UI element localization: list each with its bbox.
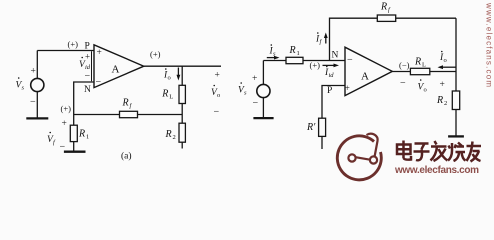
svg-text:−: − — [96, 77, 102, 88]
svg-text:id: id — [85, 64, 91, 71]
svg-text:N: N — [332, 51, 339, 61]
svg-text:−: − — [214, 107, 220, 118]
svg-text:(a): (a) — [121, 151, 132, 162]
svg-text:+: + — [31, 67, 36, 77]
svg-text:−: − — [30, 97, 36, 108]
svg-text:R: R — [380, 2, 387, 13]
svg-text:(+): (+) — [150, 49, 161, 59]
svg-text:R: R — [165, 129, 172, 140]
svg-text:R: R — [78, 129, 85, 140]
svg-text:+: + — [215, 71, 220, 81]
svg-text:R: R — [436, 95, 443, 106]
svg-text:−: − — [253, 98, 259, 109]
svg-text:(−): (−) — [399, 60, 410, 70]
svg-text:o: o — [168, 75, 171, 82]
svg-text:o: o — [444, 57, 447, 64]
svg-text:(+): (+) — [310, 60, 321, 70]
svg-text:2: 2 — [444, 100, 447, 107]
svg-text:www.elecfans.com: www.elecfans.com — [485, 2, 494, 87]
svg-text:L: L — [422, 61, 426, 68]
svg-text:+: + — [62, 119, 67, 129]
svg-text:+: + — [440, 80, 445, 90]
svg-text:−: − — [347, 55, 353, 66]
svg-text:R′: R′ — [306, 122, 316, 133]
svg-text:N: N — [84, 85, 91, 95]
svg-text:+: + — [345, 84, 350, 94]
svg-text:(+): (+) — [61, 104, 72, 114]
svg-text:P: P — [327, 86, 332, 96]
svg-text:id: id — [329, 72, 335, 79]
svg-text:(+): (+) — [68, 39, 79, 49]
svg-text:www.elecfans.com: www.elecfans.com — [394, 165, 479, 176]
svg-text:A: A — [112, 64, 120, 76]
svg-text:+: + — [85, 52, 90, 62]
svg-text:+: + — [252, 74, 257, 84]
svg-text:P: P — [85, 42, 90, 52]
svg-text:−: − — [400, 78, 406, 89]
svg-text:−: − — [60, 142, 66, 153]
svg-text:L: L — [169, 93, 173, 100]
svg-text:1: 1 — [86, 134, 89, 141]
svg-text:+: + — [97, 48, 102, 58]
svg-text:A: A — [361, 71, 369, 83]
svg-text:o: o — [217, 92, 220, 99]
svg-text:1: 1 — [297, 50, 300, 57]
svg-text:2: 2 — [173, 134, 176, 141]
svg-text:R: R — [414, 56, 421, 67]
svg-text:o: o — [424, 87, 427, 94]
svg-text:R: R — [289, 45, 296, 56]
svg-text:R: R — [122, 98, 129, 109]
svg-text:R: R — [161, 88, 168, 99]
svg-text:−: − — [85, 71, 91, 82]
